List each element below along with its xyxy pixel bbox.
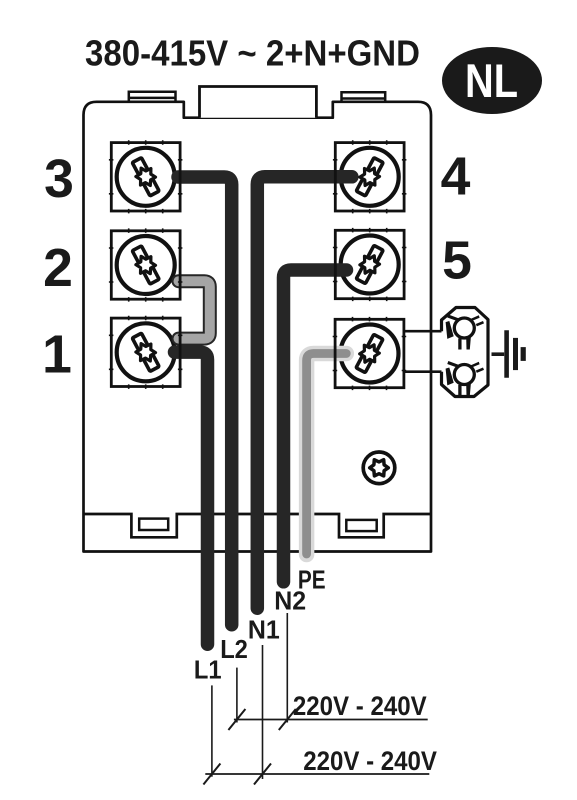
terminal PE square border bbox=[333, 317, 407, 390]
earth clamp screw 2 bbox=[446, 362, 484, 396]
svg-text:2: 2 bbox=[43, 239, 73, 298]
earth clamp screw 1 bbox=[446, 315, 484, 349]
wire L2 from terminal 3 down bbox=[178, 177, 232, 625]
terminal 3 screw circle bbox=[117, 148, 175, 206]
terminal 1 torx star bbox=[136, 344, 156, 361]
svg-text:3: 3 bbox=[44, 150, 74, 209]
terminal 3 torx star bbox=[136, 168, 156, 185]
extension line L2 bbox=[236, 668, 238, 723]
top right mounting tab bbox=[342, 92, 386, 102]
terminal block body outline bbox=[84, 102, 432, 552]
grey jumper link terminals 2-1 core bbox=[179, 281, 210, 338]
terminal 4 screw slot bbox=[356, 158, 383, 196]
terminal 3 square border bbox=[109, 140, 182, 213]
dimension line L2-N2 bbox=[234, 719, 428, 721]
terminal 1 screw circle bbox=[117, 323, 175, 381]
terminal 4 torx star bbox=[360, 168, 380, 185]
terminal 5 screw circle bbox=[341, 236, 399, 294]
terminal 5 square border bbox=[333, 228, 407, 301]
wire N1 from terminal 4 down bbox=[257, 177, 352, 608]
extension line N1 bbox=[262, 645, 264, 779]
terminal 2 square border bbox=[109, 228, 182, 301]
dimension tick N2 bbox=[279, 709, 296, 730]
svg-text:220V - 240V: 220V - 240V bbox=[293, 691, 427, 721]
torx fixing screw bbox=[363, 452, 395, 484]
terminal 3 screw slot bbox=[132, 158, 159, 196]
NL country oval bbox=[442, 47, 542, 114]
svg-text:N1: N1 bbox=[248, 616, 280, 644]
terminal 4 screw circle bbox=[341, 148, 399, 206]
svg-text:5: 5 bbox=[442, 232, 472, 291]
grey jumper link terminals 2-1 outline bbox=[179, 281, 210, 338]
dimension line L1-N1 bbox=[205, 773, 429, 775]
dimension tick N1 bbox=[254, 764, 271, 785]
wire N2 from terminal 5 down bbox=[284, 270, 347, 582]
svg-text:380-415V ~ 2+N+GND: 380-415V ~ 2+N+GND bbox=[85, 33, 420, 74]
terminal PE torx star bbox=[360, 345, 380, 362]
terminal 5 torx star bbox=[360, 256, 380, 273]
svg-text:N2: N2 bbox=[274, 587, 306, 615]
svg-text:220V - 240V: 220V - 240V bbox=[303, 746, 437, 776]
top left mounting tab bbox=[129, 92, 176, 102]
svg-text:NL: NL bbox=[465, 54, 518, 107]
right DIN clip bbox=[346, 520, 376, 531]
PE terminal link to earth clamp bbox=[404, 331, 441, 372]
terminal 5 screw slot bbox=[356, 245, 383, 283]
top center tab bbox=[200, 87, 317, 118]
earth ground symbol bbox=[492, 330, 524, 378]
dimension tick L2 bbox=[228, 709, 245, 730]
svg-text:1: 1 bbox=[42, 325, 72, 384]
terminal PE screw circle bbox=[341, 325, 399, 383]
svg-text:4: 4 bbox=[441, 148, 471, 207]
bottom flange with clip notches bbox=[84, 514, 432, 537]
terminal 2 screw circle bbox=[117, 236, 175, 294]
wire L1 from terminal 1 down bbox=[175, 352, 208, 644]
terminal 2 screw slot bbox=[132, 246, 159, 284]
left DIN clip bbox=[139, 519, 168, 530]
extension line L1 bbox=[211, 685, 213, 776]
dimension tick L1 bbox=[203, 764, 220, 785]
svg-text:L2: L2 bbox=[220, 636, 248, 664]
terminal 4 square border bbox=[333, 140, 407, 213]
terminal 2 torx star bbox=[136, 256, 156, 273]
wire PE grey core bbox=[307, 354, 347, 555]
terminal 1 screw slot bbox=[132, 333, 159, 371]
terminal PE screw slot bbox=[356, 334, 383, 372]
svg-text:L1: L1 bbox=[194, 657, 222, 685]
earth clamp octagon bbox=[442, 308, 489, 397]
wire PE grey halo bbox=[307, 354, 347, 555]
terminal 1 square border bbox=[109, 316, 182, 389]
extension line N2 bbox=[286, 613, 288, 723]
